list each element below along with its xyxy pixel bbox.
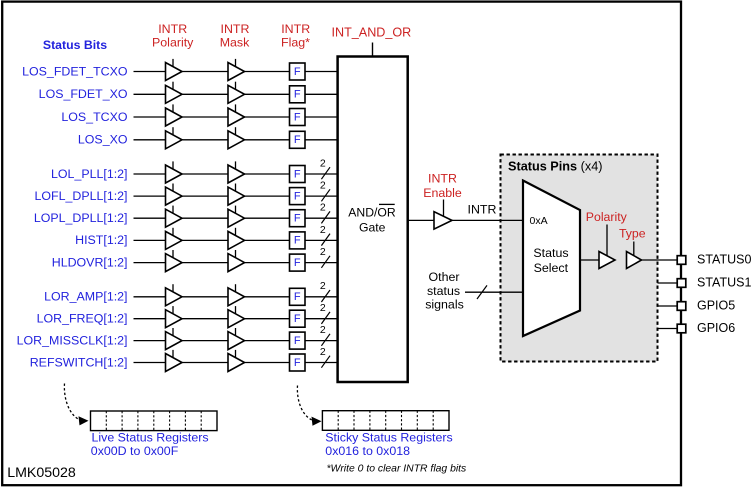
wire row1 polarity to mask — [182, 71, 228, 73]
wire row2 polarity to mask — [182, 93, 228, 95]
buffer row5 INTR Mask — [228, 161, 245, 183]
svg-text:*Write 0 to clear INTR flag bi: *Write 0 to clear INTR flag bits — [327, 464, 467, 475]
svg-text:F: F — [294, 111, 301, 123]
svg-text:LOR_AMP[1:2]: LOR_AMP[1:2] — [44, 290, 127, 304]
svg-text:2: 2 — [320, 157, 326, 169]
wire row2 mask to flag — [245, 93, 290, 95]
wire box to GPIO6 pin — [658, 328, 679, 330]
svg-text:2: 2 — [320, 346, 326, 358]
buffer row4 INTR Polarity — [166, 127, 183, 149]
flag register row5 F — [290, 166, 306, 183]
wire row7 mask to flag — [245, 217, 290, 219]
buffer row13 INTR Polarity — [166, 350, 183, 372]
svg-text:Gate: Gate — [359, 220, 386, 234]
svg-text:F: F — [294, 235, 301, 247]
wire HIST[1:2] input — [134, 239, 166, 241]
svg-text:LOS_FDET_TCXO: LOS_FDET_TCXO — [22, 64, 128, 78]
svg-text:Other: Other — [429, 270, 460, 284]
svg-text:2: 2 — [320, 202, 326, 214]
wire LOFL_DPLL[1:2] input — [134, 195, 166, 197]
svg-text:F: F — [294, 134, 301, 146]
svg-text:F: F — [294, 257, 301, 269]
wire row9 flag to gate — [305, 262, 337, 264]
flag register row1 F — [290, 63, 306, 80]
svg-text:F: F — [294, 335, 301, 347]
svg-text:F: F — [294, 168, 301, 180]
buffer row12 INTR Mask — [228, 328, 245, 350]
buffer row3 INTR Mask — [228, 104, 245, 126]
buffer row11 INTR Polarity — [166, 306, 183, 328]
live status registers box — [91, 411, 218, 431]
bus width 2 marker row5 — [320, 157, 330, 179]
wire row13 mask to flag — [245, 362, 290, 364]
svg-text:F: F — [294, 213, 301, 225]
wire row7 flag to gate — [305, 217, 337, 219]
flag register row12 F — [290, 332, 306, 349]
wire row4 polarity to mask — [182, 139, 228, 141]
svg-text:Enable: Enable — [423, 186, 462, 200]
buffer U-polarity — [599, 225, 615, 269]
wire row12 flag to gate — [305, 340, 337, 342]
flag register row3 F — [290, 109, 306, 126]
wire other status signals to mux — [465, 291, 524, 293]
wire row5 flag to gate — [305, 173, 337, 175]
wire row1 mask to flag — [245, 71, 290, 73]
wire row11 mask to flag — [245, 318, 290, 320]
svg-text:GPIO5: GPIO5 — [697, 299, 735, 313]
svg-text:Status Pins (x4): Status Pins (x4) — [508, 160, 602, 174]
label Status Select — [533, 246, 568, 275]
svg-text:AND/OR: AND/OR — [348, 206, 396, 220]
svg-text:STATUS0: STATUS0 — [697, 253, 751, 267]
bus width 2 marker row8 — [320, 224, 330, 246]
svg-text:HIST[1:2]: HIST[1:2] — [75, 233, 127, 247]
svg-text:LOS_TCXO: LOS_TCXO — [61, 110, 127, 124]
wire row11 flag to gate — [305, 318, 337, 320]
svg-text:0x016 to 0x018: 0x016 to 0x018 — [325, 444, 410, 458]
svg-text:Mask: Mask — [220, 35, 250, 49]
buffer row10 INTR Polarity — [166, 284, 183, 306]
wire box to GPIO5 pin — [658, 305, 679, 307]
wire row4 mask to flag — [245, 139, 290, 141]
wire row13 flag to gate — [305, 362, 337, 364]
wire row10 mask to flag — [245, 296, 290, 298]
svg-text:F: F — [294, 190, 301, 202]
AND/OR gate block — [338, 57, 408, 383]
buffer row8 INTR Polarity — [166, 228, 183, 250]
wire LOPL_DPLL[1:2] input — [134, 217, 166, 219]
wire LOS_XO input — [134, 139, 166, 141]
wire row10 polarity to mask — [182, 296, 228, 298]
buffer row12 INTR Polarity — [166, 328, 183, 350]
pin STATUS1 — [677, 276, 751, 290]
wire row8 mask to flag — [245, 239, 290, 241]
svg-text:LOL_PLL[1:2]: LOL_PLL[1:2] — [51, 167, 127, 181]
svg-text:0xA: 0xA — [530, 215, 548, 227]
svg-text:2: 2 — [320, 302, 326, 314]
wire row7 polarity to mask — [182, 217, 228, 219]
svg-text:F: F — [294, 89, 301, 101]
svg-text:LMK05028: LMK05028 — [7, 465, 76, 481]
wire row5 polarity to mask — [182, 173, 228, 175]
wire mux to polarity buffer — [580, 259, 599, 261]
buffer row2 INTR Polarity — [166, 82, 183, 104]
label AND/OR Gate — [348, 204, 396, 234]
wire HLDOVR[1:2] input — [134, 262, 166, 264]
buffer row7 INTR Mask — [228, 206, 245, 228]
svg-text:STATUS1: STATUS1 — [697, 276, 751, 290]
wire INTR to status select mux — [452, 219, 524, 221]
label Other status signals — [425, 270, 464, 312]
buffer row6 INTR Polarity — [166, 184, 183, 206]
wire row12 polarity to mask — [182, 340, 228, 342]
bus width 2 marker row13 — [320, 346, 330, 368]
svg-text:status: status — [427, 284, 460, 298]
svg-text:F: F — [294, 357, 301, 369]
wire row4 flag to gate — [305, 139, 337, 141]
wire row8 polarity to mask — [182, 239, 228, 241]
svg-text:2: 2 — [320, 246, 326, 258]
bus width 2 marker row10 — [320, 280, 330, 302]
svg-text:INTR: INTR — [158, 22, 187, 36]
flag register row9 F — [290, 254, 306, 271]
svg-text:LOR_FREQ[1:2]: LOR_FREQ[1:2] — [37, 312, 128, 326]
wire row6 flag to gate — [305, 195, 337, 197]
buffer row3 INTR Polarity — [166, 104, 183, 126]
wire row3 mask to flag — [245, 116, 290, 118]
wire box to STATUS1 pin — [658, 282, 679, 284]
buffer row10 INTR Mask — [228, 284, 245, 306]
wire LOR_MISSCLK[1:2] input — [134, 340, 166, 342]
wire row1 flag to gate — [305, 71, 337, 73]
svg-text:Sticky Status Registers: Sticky Status Registers — [325, 431, 452, 445]
wire INT_AND_OR to gate — [372, 43, 374, 57]
sticky status registers box — [322, 411, 449, 431]
wire LOR_AMP[1:2] input — [134, 296, 166, 298]
pin STATUS0 — [677, 253, 751, 267]
mux U-statusselect Status Select — [523, 181, 580, 337]
wire row12 mask to flag — [245, 340, 290, 342]
svg-text:Polarity: Polarity — [152, 35, 194, 49]
wire row3 flag to gate — [305, 116, 337, 118]
wire row5 mask to flag — [245, 173, 290, 175]
buffer U-type — [627, 242, 642, 269]
svg-text:F: F — [294, 313, 301, 325]
flag register row13 F — [290, 354, 306, 371]
buffer row1 INTR Polarity — [166, 59, 183, 81]
svg-text:F: F — [294, 66, 301, 78]
wire LOS_FDET_TCXO input — [134, 71, 166, 73]
wire row6 mask to flag — [245, 195, 290, 197]
bus width 2 marker row6 — [320, 180, 330, 202]
wire row3 polarity to mask — [182, 116, 228, 118]
buffer row4 INTR Mask — [228, 127, 245, 149]
wire row11 polarity to mask — [182, 318, 228, 320]
svg-text:0x00D to 0x00F: 0x00D to 0x00F — [91, 444, 179, 458]
svg-text:F: F — [294, 291, 301, 303]
dashed arrow to live status registers — [64, 384, 88, 426]
svg-text:Live Status Registers: Live Status Registers — [92, 431, 209, 445]
flag register row6 F — [290, 188, 306, 205]
svg-text:2: 2 — [320, 224, 326, 236]
wire row6 polarity to mask — [182, 195, 228, 197]
bus width 2 marker row9 — [320, 246, 330, 268]
wire type buffer to STATUS0 pin — [642, 259, 679, 261]
wire row9 mask to flag — [245, 262, 290, 264]
svg-text:HLDOVR[1:2]: HLDOVR[1:2] — [52, 255, 128, 269]
svg-text:GPIO6: GPIO6 — [697, 321, 735, 335]
svg-text:INT_AND_OR: INT_AND_OR — [332, 26, 412, 40]
svg-text:LOFL_DPLL[1:2]: LOFL_DPLL[1:2] — [35, 189, 128, 203]
svg-text:LOS_FDET_XO: LOS_FDET_XO — [39, 87, 128, 101]
bus width 2 marker row12 — [320, 324, 330, 346]
buffer row1 INTR Mask — [228, 59, 245, 81]
wire row13 polarity to mask — [182, 362, 228, 364]
flag register row10 F — [290, 288, 306, 305]
wire REFSWITCH[1:2] input — [134, 362, 166, 364]
svg-text:INTR: INTR — [221, 22, 250, 36]
flag register row8 F — [290, 232, 306, 249]
wire LOL_PLL[1:2] input — [134, 173, 166, 175]
bus width 2 marker row7 — [320, 202, 330, 224]
buffer U-enable INTR Enable — [434, 200, 452, 230]
svg-text:LOR_MISSCLK[1:2]: LOR_MISSCLK[1:2] — [17, 333, 128, 347]
buffer row9 INTR Polarity — [166, 250, 183, 272]
wire row9 polarity to mask — [182, 262, 228, 264]
svg-text:Status Bits: Status Bits — [43, 38, 107, 52]
buffer row13 INTR Mask — [228, 350, 245, 372]
wire gate output to INTR Enable buffer — [408, 219, 435, 221]
flag register row4 F — [290, 131, 306, 148]
flag register row7 F — [290, 210, 306, 227]
svg-text:REFSWITCH[1:2]: REFSWITCH[1:2] — [30, 355, 128, 369]
svg-text:2: 2 — [320, 324, 326, 336]
svg-text:Select: Select — [534, 261, 569, 275]
buffer row2 INTR Mask — [228, 82, 245, 104]
svg-text:Type: Type — [619, 227, 646, 241]
buffer row5 INTR Polarity — [166, 161, 183, 183]
wire row8 flag to gate — [305, 239, 337, 241]
flag register row11 F — [290, 310, 306, 327]
svg-text:2: 2 — [320, 180, 326, 192]
wire LOS_FDET_XO input — [134, 93, 166, 95]
svg-text:INTR: INTR — [428, 171, 457, 185]
svg-text:Polarity: Polarity — [586, 210, 628, 224]
wire LOS_TCXO input — [134, 116, 166, 118]
buffer row6 INTR Mask — [228, 184, 245, 206]
svg-text:LOPL_DPLL[1:2]: LOPL_DPLL[1:2] — [34, 211, 128, 225]
svg-text:2: 2 — [320, 280, 326, 292]
pin GPIO6 — [677, 321, 735, 335]
dashed arrow to sticky status registers — [297, 386, 321, 426]
flag register row2 F — [290, 86, 306, 103]
wire LOR_FREQ[1:2] input — [134, 318, 166, 320]
wire row10 flag to gate — [305, 296, 337, 298]
buffer row7 INTR Polarity — [166, 206, 183, 228]
bus width 2 marker row11 — [320, 302, 330, 324]
bus width marker other status signals — [477, 285, 487, 299]
wire row2 flag to gate — [305, 93, 337, 95]
svg-text:Flag*: Flag* — [281, 35, 310, 49]
svg-text:INTR: INTR — [468, 203, 497, 217]
Status Pins (x4) block — [501, 155, 658, 362]
svg-text:signals: signals — [425, 298, 464, 312]
buffer row9 INTR Mask — [228, 250, 245, 272]
svg-text:Status: Status — [533, 246, 568, 260]
pin GPIO5 — [677, 299, 735, 313]
buffer row11 INTR Mask — [228, 306, 245, 328]
buffer row8 INTR Mask — [228, 228, 245, 250]
svg-text:LOS_XO: LOS_XO — [78, 133, 128, 147]
svg-text:INTR: INTR — [281, 22, 310, 36]
